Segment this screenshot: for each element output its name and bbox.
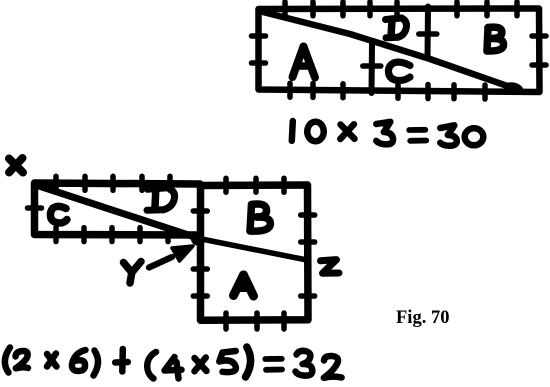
arrow from Y to junction [149,246,193,268]
ticks on top edge of top rectangle [285,2,517,16]
svg-text:Fig. 70: Fig. 70 [396,308,449,328]
ticks on left edge of square [193,211,207,296]
ticks on top edge of square [226,178,284,192]
label B (bottom figure) [250,204,270,231]
digit 3 [296,351,313,376]
digit 3 [376,122,393,145]
digit 4 [165,357,182,371]
label C (bottom figure) [50,206,67,223]
junction blob at Y corner [191,233,204,246]
square (4x5) outline [201,185,309,320]
ticks on right edge of square [301,215,315,296]
open paren [5,348,10,373]
digit 0 [465,128,484,145]
label C (top figure) [388,62,410,80]
label D (bottom figure) [147,188,175,211]
thin rectangle (2x6) outline [35,183,201,235]
digit 2 [16,351,29,368]
equals sign [409,127,425,133]
digit 5 [219,351,236,372]
times sign [195,358,207,371]
ticks on bottom edge of thin rectangle [56,228,168,242]
square diagonal (Y to Z) [199,239,307,261]
thin rectangle diagonal (X to Y) [39,186,196,238]
label X [9,158,23,173]
ticks on right edge of top rectangle [532,36,546,65]
times sign [47,354,57,367]
plus sign [119,349,126,372]
ticks on top edge of thin rectangle [56,176,170,190]
label A (bottom figure) [234,275,254,296]
tick on left edge of thin rectangle [28,205,42,211]
digit 3 [440,125,457,146]
digit 0 [307,122,324,142]
ticks on left edge of top rectangle [252,36,266,63]
label Y [124,262,142,284]
ticks on bottom edge of top rectangle [290,83,485,99]
digit 6 [72,350,86,371]
divider between D and B [419,7,437,59]
digit 1 [292,121,293,141]
top rectangle diagonal line [263,12,525,97]
top rectangle outline (10x3) [259,9,540,93]
times sign [341,125,355,139]
ticks on bottom edge of square [226,313,284,329]
close paren [246,347,251,377]
digit 2 [324,356,342,378]
open paren [147,352,156,379]
equation "10 x 3 = 30" [292,121,484,146]
divider between A and C [363,44,381,93]
equation "(2x6)+(4x5)=32" [5,347,342,379]
equals sign [265,356,282,362]
label D (top figure) [386,18,407,38]
label Z [321,260,340,274]
label A (top figure) [293,47,316,78]
label B (top figure) [487,27,504,51]
close paren [94,351,99,376]
